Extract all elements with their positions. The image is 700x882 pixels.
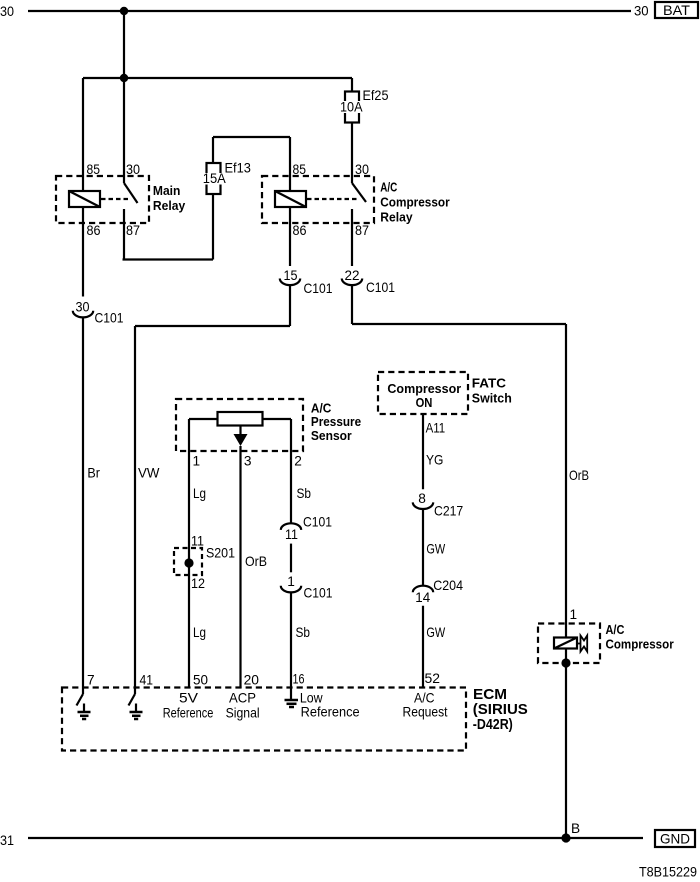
svg-text:Ef25: Ef25 xyxy=(363,88,389,103)
svg-text:Request: Request xyxy=(403,705,448,720)
svg-text:ON: ON xyxy=(416,395,433,410)
svg-text:A/C: A/C xyxy=(606,623,625,637)
svg-text:Relay: Relay xyxy=(380,210,413,225)
svg-text:Lg: Lg xyxy=(193,486,206,501)
svg-text:11: 11 xyxy=(285,527,298,542)
label Br xyxy=(87,466,100,481)
svg-text:Signal: Signal xyxy=(226,706,260,721)
svg-text:11: 11 xyxy=(191,533,204,548)
node: dot on ground rail xyxy=(561,833,570,842)
ECM pin 16 label xyxy=(293,672,305,687)
svg-text:(SIRIUS: (SIRIUS xyxy=(473,702,528,718)
connector 8 C217 xyxy=(413,491,463,519)
svg-text:Sensor: Sensor xyxy=(311,428,352,443)
svg-text:T8B15229: T8B15229 xyxy=(639,864,697,879)
svg-text:Switch: Switch xyxy=(472,391,512,406)
wire: connector 14 to ECM pin 52 xyxy=(422,606,424,688)
fuse Ef13 15A xyxy=(200,161,251,195)
wire: A/C relay pin 86 down xyxy=(289,207,291,266)
svg-text:50: 50 xyxy=(193,673,208,688)
svg-text:Compressor: Compressor xyxy=(380,195,449,210)
node: junction at branch xyxy=(120,74,128,82)
A/C relay switch blade xyxy=(352,183,366,202)
S201 labels xyxy=(191,533,235,591)
connector 30 C101 xyxy=(73,300,124,326)
label A/C Request xyxy=(403,690,448,719)
node: splice dot S201 xyxy=(184,558,193,567)
svg-text:30: 30 xyxy=(76,300,90,315)
svg-text:C101: C101 xyxy=(304,586,333,601)
svg-text:GW: GW xyxy=(426,542,445,557)
pin 85 label (A/C relay) xyxy=(293,162,307,177)
label A/C Compressor xyxy=(606,623,674,652)
svg-text:-D42R): -D42R) xyxy=(473,717,513,733)
label 30 left xyxy=(0,4,14,19)
wire: connector 22 down and right to OrB drop xyxy=(352,285,566,324)
connector 14 C204 xyxy=(413,578,464,605)
svg-text:1: 1 xyxy=(287,574,295,589)
svg-text:87: 87 xyxy=(355,223,369,238)
wire: bus 30 down to main relay switch xyxy=(123,11,125,183)
svg-text:12: 12 xyxy=(191,576,205,591)
bus 30 rail xyxy=(28,10,631,12)
node: dot at compressor box bottom xyxy=(561,658,570,667)
wire: sensor pin 1 (Lg) down to S201 xyxy=(188,451,190,575)
label A/C Compressor Relay xyxy=(380,180,449,225)
wire: Br run to ECM pin 7 xyxy=(82,317,84,694)
wire: Main Relay pin 87 stub xyxy=(123,209,125,260)
svg-text:22: 22 xyxy=(345,268,360,283)
svg-text:Sb: Sb xyxy=(296,625,311,640)
svg-text:41: 41 xyxy=(140,673,154,688)
A/C Compressor box xyxy=(538,624,600,664)
label Lg lower xyxy=(193,625,206,640)
compressor pin 1 label xyxy=(570,607,578,622)
ECM pin 50 label xyxy=(193,673,208,688)
wire: VW run from junction to ECM pin 41 xyxy=(135,326,290,694)
svg-text:2: 2 xyxy=(294,454,302,469)
wire: down to fuse Ef25 xyxy=(351,78,353,92)
Main Relay coil xyxy=(69,191,100,207)
svg-text:Sb: Sb xyxy=(297,486,312,501)
svg-text:Main: Main xyxy=(153,183,181,198)
ground at ECM pin 7 xyxy=(77,694,91,719)
svg-text:1: 1 xyxy=(570,607,578,622)
label B xyxy=(571,821,580,836)
label GW upper xyxy=(426,542,445,557)
svg-text:C101: C101 xyxy=(366,280,395,295)
svg-text:5V: 5V xyxy=(179,690,199,705)
sensor pin 2 label xyxy=(294,454,302,469)
label 5V Reference xyxy=(163,690,214,720)
pin 87 label (A/C relay) xyxy=(355,223,369,238)
svg-text:GW: GW xyxy=(426,625,445,640)
ECM pin 41 label xyxy=(140,673,154,688)
sensor resistor element xyxy=(218,412,263,426)
svg-text:3: 3 xyxy=(244,454,252,469)
connector 22 C101 xyxy=(342,268,395,295)
svg-text:30: 30 xyxy=(355,162,369,177)
label FATC Switch xyxy=(472,376,512,406)
svg-text:BAT: BAT xyxy=(663,3,691,18)
pin A11 label xyxy=(426,421,446,436)
wire: OrB drop to A/C compressor xyxy=(565,324,567,638)
label Low Reference xyxy=(300,690,360,719)
svg-text:86: 86 xyxy=(293,223,307,238)
label GW lower xyxy=(426,625,445,640)
sensor pin 1 label xyxy=(193,454,201,469)
svg-text:Compressor: Compressor xyxy=(387,381,461,396)
ECM pin 7 label xyxy=(87,673,95,688)
Main Relay box xyxy=(56,176,149,223)
connector 1 C101 xyxy=(281,574,333,601)
label Sb lower xyxy=(296,625,311,640)
svg-text:VW: VW xyxy=(138,466,159,481)
wire: branch horizontal xyxy=(83,77,352,79)
wire: pin 87 to fuse Ef13 xyxy=(123,194,214,260)
svg-text:A11: A11 xyxy=(426,421,446,436)
FATC Switch box xyxy=(378,372,468,414)
wire: sensor pin 3 (OrB) down to ECM pin 20 xyxy=(239,446,241,688)
svg-text:C101: C101 xyxy=(304,281,333,296)
label OrB right xyxy=(569,468,589,483)
svg-text:C217: C217 xyxy=(434,504,463,519)
sensor pin 3 label xyxy=(244,454,252,469)
sensor wiper arrow xyxy=(234,434,248,446)
label VW xyxy=(138,466,159,481)
label ACP Signal xyxy=(226,690,260,720)
label A/C Pressure Sensor xyxy=(311,401,361,444)
svg-text:30: 30 xyxy=(0,4,14,19)
svg-text:8: 8 xyxy=(418,491,426,506)
ECM pin 52 label xyxy=(425,671,441,686)
wire: connector 1 down to ECM pin 16 xyxy=(290,592,292,699)
Main Relay coil-switch dashed link xyxy=(101,198,131,200)
wire: FATC pin A11 down xyxy=(422,414,424,489)
label Main Relay xyxy=(153,183,186,213)
svg-text:Lg: Lg xyxy=(193,625,206,640)
svg-text:S201: S201 xyxy=(206,546,235,561)
svg-text:FATC: FATC xyxy=(472,376,507,391)
svg-text:C204: C204 xyxy=(433,578,463,593)
svg-text:15: 15 xyxy=(284,268,298,283)
wire: A/C relay pin 87 stub down xyxy=(351,209,353,266)
svg-text:B: B xyxy=(571,821,580,836)
svg-text:31: 31 xyxy=(0,833,14,848)
svg-text:A/C: A/C xyxy=(414,690,435,705)
svg-text:OrB: OrB xyxy=(569,468,589,483)
ECM box xyxy=(62,688,466,751)
svg-text:Br: Br xyxy=(87,466,100,481)
label 31 left xyxy=(0,833,14,848)
wire: connector 15 to junction with VW xyxy=(289,285,291,326)
svg-text:20: 20 xyxy=(244,673,260,688)
svg-text:30: 30 xyxy=(634,3,649,18)
svg-text:1: 1 xyxy=(193,454,201,469)
svg-text:YG: YG xyxy=(426,453,443,468)
connector 11 C101 xyxy=(281,515,332,542)
svg-text:OrB: OrB xyxy=(245,554,267,569)
svg-text:C101: C101 xyxy=(95,311,124,326)
label 30 right xyxy=(634,3,649,18)
svg-text:C101: C101 xyxy=(303,515,332,530)
label Compressor ON xyxy=(387,381,461,410)
node: junction on bus 30 xyxy=(120,7,128,15)
svg-text:7: 7 xyxy=(87,673,95,688)
svg-text:52: 52 xyxy=(425,671,441,686)
ground at ECM pin 16 xyxy=(285,700,299,707)
pin 30 label (A/C relay) xyxy=(355,162,369,177)
wire: S201 to ECM pin 50 xyxy=(188,575,190,688)
wire: between C101 halves xyxy=(290,544,292,573)
A/C relay coil-switch dashed link xyxy=(307,198,359,200)
compressor clutch symbol xyxy=(577,636,587,652)
svg-text:86: 86 xyxy=(87,223,101,238)
wire: main relay pin 86 down (Br) xyxy=(82,207,84,297)
pin 86 label (Main Relay) xyxy=(87,223,101,238)
svg-text:14: 14 xyxy=(415,590,430,605)
svg-text:10A: 10A xyxy=(340,100,363,115)
diagram id T8B15229 xyxy=(639,864,697,879)
svg-text:ACP: ACP xyxy=(229,690,256,705)
svg-text:Reference: Reference xyxy=(163,706,214,721)
svg-text:85: 85 xyxy=(293,162,307,177)
svg-text:Relay: Relay xyxy=(153,198,186,213)
bus 31 ground rail xyxy=(28,837,643,839)
svg-text:30: 30 xyxy=(126,162,140,177)
svg-text:85: 85 xyxy=(87,162,101,177)
svg-text:16: 16 xyxy=(293,672,305,687)
wire: sensor pin 2 (Sb) down to connector 11 xyxy=(290,451,292,523)
svg-text:A/C: A/C xyxy=(380,180,397,195)
pin 85 label (Main Relay) xyxy=(87,162,101,177)
svg-text:GND: GND xyxy=(660,832,690,847)
Main Relay switch blade xyxy=(124,183,138,203)
svg-text:Low: Low xyxy=(300,690,323,705)
wire: fuse Ef13 up and over to A/C relay pin 85 xyxy=(213,137,290,191)
svg-text:Ef13: Ef13 xyxy=(225,161,252,176)
A/C relay coil xyxy=(275,191,306,207)
label Sb upper xyxy=(297,486,312,501)
compressor clutch coil xyxy=(554,638,577,649)
pin 87 label (Main Relay) xyxy=(126,223,140,238)
svg-text:87: 87 xyxy=(126,223,140,238)
svg-text:Pressure: Pressure xyxy=(311,414,361,429)
wire: fuse Ef25 to A/C relay pin 30 xyxy=(351,123,353,184)
svg-text:15A: 15A xyxy=(203,171,227,186)
wire: down to main relay coil pin 85 xyxy=(82,78,84,191)
label Lg upper xyxy=(193,486,206,501)
A/C Compressor Relay box xyxy=(262,176,374,223)
ECM pin 20 label xyxy=(244,673,260,688)
label OrB center xyxy=(245,554,267,569)
connector 15 C101 xyxy=(280,268,333,296)
svg-text:Reference: Reference xyxy=(301,705,360,720)
fuse Ef25 10A xyxy=(337,88,389,123)
label YG xyxy=(426,453,443,468)
svg-text:Compressor: Compressor xyxy=(606,638,674,652)
wire: connector 8 to connector 14 xyxy=(422,509,424,586)
ground at ECM pin 41 xyxy=(129,694,143,719)
svg-text:ECM: ECM xyxy=(473,687,507,703)
BAT terminal xyxy=(655,2,698,18)
A/C Pressure Sensor box xyxy=(176,399,303,451)
pin 86 label (A/C relay) xyxy=(293,223,307,238)
sensor internal wires xyxy=(189,419,291,451)
wire: compressor to ground rail (B) xyxy=(565,649,567,839)
pin 30 label (Main Relay) xyxy=(126,162,140,177)
label ECM (SIRIUS -D42R) xyxy=(473,687,528,733)
splice S201 xyxy=(174,548,202,575)
GND terminal xyxy=(655,830,695,847)
